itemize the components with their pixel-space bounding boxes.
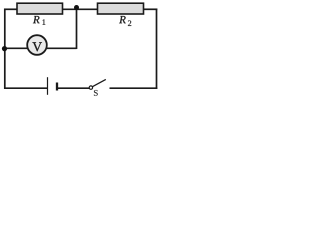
wire left side <box>4 9 6 90</box>
wire bottom-left to battery <box>4 87 47 89</box>
label R1 <box>33 16 40 23</box>
label S <box>94 90 98 96</box>
switch S pivot circle <box>89 86 92 89</box>
wire between R1 and R2 <box>63 8 98 10</box>
wire battery to switch <box>58 87 90 89</box>
voltmeter V1 circle <box>27 35 47 55</box>
label V inside voltmeter <box>32 42 42 51</box>
wire voltmeter branch horizontal <box>5 47 77 49</box>
wire switch to bottom-right <box>110 87 158 89</box>
wire top-right segment <box>144 8 158 10</box>
wire right side <box>156 9 158 90</box>
battery long plate <box>47 77 49 95</box>
wire top-left segment <box>4 8 17 10</box>
label R2 subscript 2 <box>128 20 131 25</box>
battery short plate <box>56 83 58 91</box>
node junction dot top (between R1 and R2) <box>74 5 79 10</box>
switch S lever <box>92 79 105 86</box>
resistor R1 <box>17 3 63 14</box>
node junction dot left <box>2 46 7 51</box>
resistor R2 <box>98 3 144 14</box>
label R2 <box>119 16 126 23</box>
wire voltmeter branch vertical riser <box>76 8 78 50</box>
label R1 subscript 1 <box>43 19 46 24</box>
